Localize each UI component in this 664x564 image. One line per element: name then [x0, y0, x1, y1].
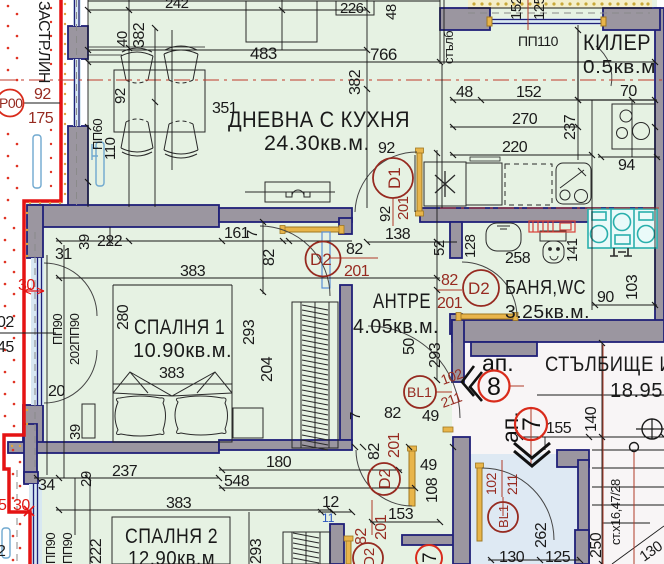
- svg-text:АНТРЕ: АНТРЕ: [373, 290, 431, 313]
- chair row lines: [88, 46, 205, 48]
- insulation dots left column: [4, 5, 53, 562]
- bedside table right: [233, 408, 263, 438]
- vert ext line x88: [87, 0, 89, 207]
- apartment circle 7 bottom: [416, 545, 442, 564]
- svg-text:220: 220: [502, 139, 528, 156]
- window west mid lines: [74, 59, 76, 126]
- dim line 12: [318, 511, 352, 513]
- vert dim x655: [654, 100, 656, 310]
- door D2 bath leaf orange: [458, 314, 517, 319]
- svg-text:БАНЯ,WC: БАНЯ,WC: [505, 277, 586, 299]
- kitchen dashed cabinet: [505, 164, 552, 205]
- stove: [612, 104, 655, 149]
- svg-text:201: 201: [386, 432, 403, 458]
- svg-text:5: 5: [0, 497, 7, 514]
- svg-text:293: 293: [248, 538, 265, 564]
- washer mid detail: [614, 214, 631, 231]
- red tick bottom: [24, 506, 34, 516]
- door BL1 antre frame orange: [443, 427, 453, 432]
- corridor right wall bottom block: [575, 530, 589, 564]
- svg-text:30: 30: [13, 497, 30, 514]
- svg-text:7: 7: [420, 552, 441, 563]
- svg-text:48: 48: [456, 84, 473, 101]
- tv cabinet: [265, 182, 330, 202]
- svg-text:39: 39: [76, 234, 93, 250]
- white strip bedroom1 window: [25, 227, 31, 467]
- balcony hatch band top right: [468, 0, 652, 8]
- radiator living: [96, 142, 104, 186]
- red axis dashdot bath y208: [440, 207, 664, 209]
- window kitchen north glazing: [490, 18, 603, 25]
- svg-text:7: 7: [244, 230, 261, 238]
- svg-text:48: 48: [383, 4, 400, 20]
- svg-text:293: 293: [241, 319, 258, 345]
- door ap7 corridor leaf orange: [477, 467, 482, 541]
- window west top glazing: [73, 0, 81, 26]
- door kiler swing arc: [596, 46, 612, 86]
- svg-text:BL1: BL1: [407, 384, 432, 400]
- svg-text:153: 153: [388, 506, 414, 523]
- svg-text:D2: D2: [310, 250, 332, 269]
- dim line 48-152-70: [450, 99, 657, 101]
- svg-text:103: 103: [624, 274, 641, 300]
- svg-text:49: 49: [422, 408, 439, 425]
- svg-text:02: 02: [0, 314, 14, 331]
- red line BL1 corridor stem: [502, 497, 504, 516]
- door ap7 bottom leaf orange: [346, 540, 351, 564]
- door circle D2 bedroom1: [306, 242, 341, 277]
- red line circle8: [510, 385, 524, 387]
- red boundary main: [4, 0, 61, 564]
- section mark circle-cross: [642, 419, 662, 439]
- door D2 bedroom1 lintel orange: [284, 227, 340, 232]
- vert dim x578 kiler: [577, 25, 579, 160]
- svg-text:7: 7: [518, 417, 546, 431]
- svg-text:4.05кв.м.: 4.05кв.м.: [353, 316, 439, 338]
- svg-text:ПП90: ПП90: [60, 533, 75, 564]
- door BL1 antre swing arc: [368, 326, 460, 418]
- svg-text:ст.х16,47/28: ст.х16,47/28: [608, 479, 623, 545]
- red dim 30 arrows upper: [24, 290, 44, 292]
- svg-text:102: 102: [483, 472, 499, 495]
- svg-text:141: 141: [564, 238, 581, 262]
- svg-text:222: 222: [97, 233, 123, 250]
- tv cabinet shelf line: [245, 191, 335, 193]
- wardrobe rails: [300, 302, 302, 448]
- window bedroom2 lines: [33, 484, 35, 564]
- radiator clip living: [92, 144, 98, 160]
- door circle D2 ap7 bottom: [353, 543, 383, 564]
- svg-text:201: 201: [437, 295, 463, 312]
- door D2 bedroom2 leaf orange: [409, 450, 415, 506]
- boundary red line: [4, 0, 61, 564]
- door circle BL1 antre: [404, 376, 436, 408]
- wardrobe2 rails: [291, 532, 293, 564]
- stair walkline start circle: [630, 443, 639, 452]
- dim line 383 bedroom1: [56, 277, 440, 279]
- wall axis dash bedroom2 window: [16, 470, 18, 564]
- toilet bowl: [543, 241, 564, 263]
- bedroom west block low: [23, 405, 43, 444]
- svg-text:ЗАСТР.ЛИН: ЗАСТР.ЛИН: [35, 1, 52, 83]
- toilet tank: [540, 231, 566, 241]
- entrance chevrons ap8: [462, 366, 482, 401]
- window kitchen north lines: [490, 19, 603, 21]
- svg-text:250: 250: [588, 532, 605, 558]
- wall west upper block2: [68, 126, 88, 207]
- bedroom2/antre wall: [219, 440, 352, 450]
- washer group frame: [588, 209, 657, 248]
- vert line x110: [109, 227, 111, 246]
- vert dim x592: [591, 100, 593, 310]
- dim line 237-34: [34, 477, 219, 479]
- svg-text:92: 92: [34, 86, 51, 103]
- svg-text:382: 382: [347, 69, 364, 95]
- svg-text:20: 20: [48, 383, 65, 400]
- svg-text:D1: D1: [385, 167, 404, 189]
- dim line 90 bath: [592, 304, 657, 306]
- red dim line 82-201 bed1 door: [330, 257, 378, 259]
- white strip bedroom2 window: [12, 466, 29, 564]
- top edge line: [88, 0, 440, 2]
- tv cabinet knob: [292, 190, 304, 196]
- box 226: [336, 1, 374, 15]
- fridge star: [435, 171, 455, 197]
- kitchen counter top strip: [470, 157, 500, 161]
- svg-text:стълб: стълб: [441, 31, 456, 64]
- svg-text:82: 82: [366, 443, 383, 460]
- kitchen sink bowls: [560, 190, 570, 200]
- svg-text:30: 30: [18, 277, 35, 294]
- door D2 bedroom2 swing arc: [356, 450, 412, 506]
- dim line 220: [450, 154, 592, 156]
- stair line top: [537, 394, 664, 396]
- corridor background: [468, 454, 578, 564]
- dim line 383 bedroom2: [56, 509, 330, 511]
- svg-text:152: 152: [508, 0, 525, 20]
- svg-text:D2: D2: [377, 468, 394, 489]
- red line BL1 antre: [436, 391, 452, 393]
- vert dim x155: [154, 28, 156, 207]
- window bedroom1 lines: [37, 258, 39, 405]
- svg-text:31: 31: [55, 246, 72, 263]
- sofa top: [246, 1, 317, 42]
- vert dim x367: [366, 0, 368, 208]
- svg-text:180: 180: [266, 454, 292, 471]
- chair 2 back: [164, 46, 198, 54]
- entrance chevrons ap7: [514, 443, 550, 466]
- red dim line bath door: [436, 289, 462, 291]
- apartment circle 8: [479, 371, 510, 402]
- svg-text:ДНЕВНА С КУХНЯ: ДНЕВНА С КУХНЯ: [228, 107, 410, 132]
- svg-text:39: 39: [67, 424, 84, 440]
- vert line x64 bedroom: [63, 245, 65, 478]
- svg-text:P00: P00: [0, 95, 23, 111]
- window bedroom2 glazing: [29, 484, 42, 564]
- stair diagonal: [612, 526, 664, 564]
- svg-text:237: 237: [562, 114, 579, 140]
- washer legs: [610, 248, 632, 256]
- svg-text:49: 49: [420, 457, 437, 474]
- door ap7 corridor swing arc: [482, 468, 554, 540]
- svg-text:ПП110: ПП110: [518, 33, 559, 49]
- vert dim x263 bedroom1: [262, 222, 264, 294]
- door D1 swing arc: [355, 152, 417, 212]
- svg-text:8: 8: [487, 373, 501, 401]
- room green areas: [63, 0, 657, 212]
- vert dim x437 antre: [436, 150, 438, 380]
- bed 1 pillow right: [175, 396, 228, 435]
- dim line 270: [450, 126, 578, 128]
- svg-text:222: 222: [88, 538, 105, 564]
- red walkline stairs: [633, 451, 635, 564]
- red vert circle7: [530, 440, 532, 466]
- svg-text:СПАЛНЯ 1: СПАЛНЯ 1: [134, 316, 225, 339]
- bedroom1/antre wall: [340, 285, 352, 440]
- door D2 bedroom1 leaf blue: [322, 232, 330, 288]
- insulation hatch orange along west wall: [11, 3, 66, 447]
- stairwell top wall: [452, 320, 664, 342]
- svg-text:155: 155: [546, 420, 572, 437]
- dim line 94: [598, 156, 660, 158]
- kiler vert dim x632: [631, 100, 633, 157]
- bedside table left: [82, 404, 95, 438]
- svg-text:766: 766: [370, 45, 397, 64]
- svg-text:КИЛЕР: КИЛЕР: [583, 30, 651, 55]
- corridor verts: [544, 437, 546, 450]
- door circle D2 bath: [463, 270, 499, 306]
- chair 4 seat: [164, 124, 198, 150]
- corridor right wall: [578, 460, 589, 564]
- radiators blue: [2, 135, 104, 558]
- svg-text:82: 82: [384, 405, 401, 422]
- svg-text:BL1: BL1: [496, 505, 511, 528]
- chair 2 seat: [164, 54, 198, 80]
- svg-text:D2: D2: [361, 548, 378, 564]
- bedroom1/bedroom2 wall: [8, 442, 219, 453]
- washer left detail: [592, 212, 606, 220]
- radiator bedroom2: [2, 528, 10, 558]
- balcony hatch bottom line: [468, 7, 652, 9]
- fridge: [424, 162, 466, 206]
- svg-text:92: 92: [377, 206, 394, 222]
- dining table: [114, 70, 205, 132]
- top right block left: [440, 8, 490, 30]
- svg-text:125: 125: [545, 549, 571, 564]
- bedroom west block mid: [27, 205, 43, 258]
- corridor right corner block: [557, 450, 589, 467]
- svg-text:18.95: 18.95: [610, 380, 663, 402]
- svg-text:ПП90: ПП90: [50, 314, 65, 345]
- window kitchen end blocks: [487, 17, 492, 26]
- svg-text:D2: D2: [468, 279, 490, 298]
- svg-text:383: 383: [159, 365, 185, 382]
- wall axis dash kitchen window: [468, 12, 650, 14]
- apartment circle 7: [515, 408, 547, 440]
- wall axis dash bedroom1 window: [34, 232, 36, 470]
- svg-text:92: 92: [112, 88, 129, 104]
- svg-text:82: 82: [441, 272, 458, 289]
- svg-text:82: 82: [346, 241, 363, 258]
- svg-text:548: 548: [224, 473, 250, 490]
- svg-text:34: 34: [38, 477, 55, 494]
- window west top lines: [74, 0, 76, 26]
- dim line 242 top: [88, 9, 367, 11]
- door D1 leaf orange: [417, 152, 422, 212]
- dim line 483: [88, 49, 367, 51]
- vert line x47 bedroom: [46, 255, 48, 475]
- svg-text:201: 201: [395, 196, 412, 220]
- red dim stem D1: [392, 198, 394, 226]
- svg-text:90: 90: [597, 289, 614, 306]
- wall A right part: [219, 208, 352, 222]
- svg-text:175: 175: [28, 110, 54, 127]
- dim line 130-125: [488, 559, 580, 561]
- svg-text:0.5кв.м: 0.5кв.м: [583, 57, 656, 77]
- vert dim x129: [128, 0, 130, 207]
- vert dim x172: [171, 30, 173, 170]
- wall west upper block1: [68, 26, 88, 59]
- dim line 153: [370, 521, 440, 523]
- svg-text:270: 270: [512, 111, 538, 128]
- kitchen sink faucet: [560, 168, 586, 188]
- svg-text:383: 383: [166, 495, 192, 512]
- svg-text:40: 40: [114, 31, 131, 47]
- svg-text:293: 293: [427, 342, 444, 368]
- kitchen sink: [556, 163, 591, 204]
- red vert bed2 door: [371, 500, 373, 535]
- dim line 180: [219, 469, 402, 471]
- svg-text:12: 12: [322, 494, 339, 511]
- chair 3 back: [121, 148, 153, 156]
- svg-text:11: 11: [322, 511, 335, 525]
- antre small verts: [414, 155, 416, 212]
- svg-text:12.90кв.м: 12.90кв.м: [128, 548, 215, 564]
- door balcony bedroom1 arcs: [44, 263, 97, 403]
- kitchen counter cabinet: [466, 163, 502, 205]
- dim line left 102-145: [0, 332, 56, 334]
- svg-text:24.30кв.м.: 24.30кв.м.: [264, 132, 370, 155]
- door D2 bedroom1 swing arc: [260, 226, 330, 296]
- door kiler partition lines: [578, 30, 655, 100]
- cross vertical stub: [24, 424, 37, 482]
- node P00: [0, 90, 24, 117]
- svg-text:138: 138: [385, 226, 411, 243]
- svg-text:СТЪЛБИЩЕ И: СТЪЛБИЩЕ И: [545, 353, 664, 376]
- svg-text:262: 262: [533, 522, 550, 548]
- stairwell top wall step: [471, 342, 537, 356]
- svg-text:382: 382: [131, 22, 148, 48]
- right outer wall: [655, 8, 664, 334]
- dim line 222-161: [56, 240, 352, 242]
- chair 1 seat: [121, 56, 153, 80]
- door circle BL1 corridor: [488, 502, 518, 532]
- wardrobe hatch: [302, 305, 328, 450]
- bed 1 blanket folds: [113, 372, 232, 396]
- door D2 bath swing arc: [462, 262, 517, 317]
- party wall bottom: [402, 535, 455, 545]
- svg-text:128: 128: [462, 234, 479, 258]
- corridor left wall: [453, 437, 470, 564]
- svg-text:483: 483: [250, 44, 277, 63]
- white strip west wall: [63, 0, 88, 207]
- window bedroom1 glazing: [31, 258, 44, 405]
- svg-text:70: 70: [620, 83, 637, 100]
- svg-text:92: 92: [378, 140, 395, 157]
- svg-text:110: 110: [102, 137, 119, 160]
- svg-text:202ПП90: 202ПП90: [67, 313, 82, 365]
- chair 3 seat: [121, 122, 153, 148]
- washing machines teal: [588, 209, 657, 248]
- dim line 548: [219, 487, 415, 489]
- svg-text:82: 82: [261, 249, 278, 266]
- bed 1 pillow left: [115, 396, 166, 436]
- bedroom2 verts: [89, 478, 91, 564]
- vert dim x440 double: [439, 0, 441, 64]
- balcony hatch dots top: [472, 2, 649, 5]
- svg-text:280: 280: [115, 304, 132, 330]
- wardrobe bedroom2: [283, 532, 330, 564]
- wardrobe2 hatch: [293, 533, 319, 563]
- svg-text:СПАЛНЯ 2: СПАЛНЯ 2: [125, 525, 218, 548]
- bed 2: [112, 517, 230, 564]
- svg-text:125: 125: [531, 0, 548, 20]
- svg-text:201: 201: [344, 263, 370, 280]
- door circle D1: [373, 158, 413, 198]
- svg-text:130: 130: [499, 549, 525, 564]
- stair treads: [592, 449, 664, 451]
- wall A living/bedroom1 left: [31, 205, 219, 227]
- svg-text:201: 201: [373, 514, 390, 540]
- vert dim stairwell x602: [601, 343, 603, 564]
- bath sink: [486, 223, 521, 251]
- bath west wall upper: [450, 222, 462, 258]
- bedroom1/antre pier: [339, 218, 352, 234]
- towel rail red: [529, 221, 575, 232]
- red vert corridor: [501, 460, 503, 497]
- svg-text:2: 2: [0, 543, 6, 560]
- red axis dashdot horizontal y80: [0, 79, 664, 81]
- svg-text:29: 29: [78, 471, 95, 487]
- vert dim x282: [281, 0, 283, 50]
- svg-text:ПП90: ПП90: [43, 533, 58, 564]
- svg-text:226: 226: [340, 0, 364, 17]
- bed 1: [113, 384, 232, 442]
- washer right detail: [639, 212, 653, 220]
- top right block right: [603, 8, 660, 30]
- bath west wall lower: [450, 314, 462, 334]
- bedroom1 inner rect: [113, 285, 232, 384]
- svg-text:52: 52: [431, 240, 448, 256]
- dim line 766: [88, 61, 655, 63]
- red vert stairwell: [602, 345, 604, 564]
- wall axis dash west: [76, 0, 78, 205]
- red line P00: [24, 102, 60, 104]
- svg-text:204: 204: [259, 356, 276, 382]
- wardrobe bedroom1: [292, 302, 338, 448]
- svg-text:242: 242: [165, 0, 189, 12]
- svg-text:258: 258: [505, 250, 531, 267]
- svg-text:7: 7: [347, 412, 364, 420]
- door circle D2 bedroom2: [368, 463, 400, 495]
- bedroom2 west block: [24, 472, 38, 484]
- dim line 138: [367, 241, 457, 243]
- antre landing stub: [452, 320, 464, 382]
- svg-text:108: 108: [424, 477, 441, 503]
- svg-text:140: 140: [583, 406, 600, 432]
- red vert kitchen window: [527, 0, 529, 30]
- svg-text:211: 211: [504, 473, 520, 495]
